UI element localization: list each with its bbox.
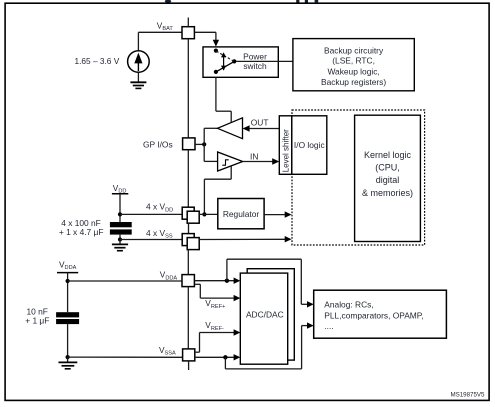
wire node vertical to buffers xyxy=(203,128,205,161)
node GPIO junction xyxy=(202,142,206,146)
dashed core domain box xyxy=(292,110,425,245)
analog peripherals box xyxy=(314,290,447,338)
svg-text:+ 1 x 4.7 μF: + 1 x 4.7 μF xyxy=(59,227,104,237)
symbol VDD xyxy=(112,183,128,222)
node VDD cap top xyxy=(118,212,122,216)
svg-text:switch: switch xyxy=(243,61,267,71)
svg-text:OUT: OUT xyxy=(251,118,269,128)
svg-text:(CPU,: (CPU, xyxy=(375,163,400,173)
svg-text:I/O logic: I/O logic xyxy=(294,140,325,150)
title descender fragment "y" xyxy=(315,0,319,2)
node VSSA cap bottom xyxy=(66,355,70,359)
wire VDDA loop to analog xyxy=(227,259,314,307)
svg-text:PLL,comparators, OPAMP,: PLL,comparators, OPAMP, xyxy=(324,310,423,320)
svg-text:& memories): & memories) xyxy=(362,188,413,198)
label VDDA pin xyxy=(160,270,178,282)
power switch box xyxy=(203,47,278,77)
rail GP to VDD pins xyxy=(187,150,189,208)
pin VBAT xyxy=(182,27,194,39)
svg-text:Wakeup logic,: Wakeup logic, xyxy=(327,67,379,77)
ground below voltage source xyxy=(130,72,146,88)
label 4 x 100 nF + 1 x 4.7 uF xyxy=(59,218,104,237)
arrow VSSA into ADC xyxy=(234,354,241,360)
wire IN buffer bottom to VDD node xyxy=(204,166,231,214)
svg-text:ADC/DAC: ADC/DAC xyxy=(246,309,284,319)
node VDDA junction xyxy=(225,279,229,283)
label VREF- xyxy=(205,320,224,332)
label VBAT xyxy=(157,20,174,32)
pin VDDA xyxy=(182,275,194,287)
label GP I/Os xyxy=(143,139,173,149)
rail VSS to VDDA pin xyxy=(187,250,189,275)
wire IN to level shifter xyxy=(243,158,280,164)
wire VSS to pin xyxy=(120,239,182,241)
wire VSSA loop to analog xyxy=(225,322,313,369)
pin 4xVSS (stacked) xyxy=(182,234,199,250)
svg-text:IN: IN xyxy=(250,151,258,161)
svg-text:(LSE, RTC,: (LSE, RTC, xyxy=(332,56,375,66)
voltage source V1 1.65-3.6V xyxy=(128,32,150,72)
rail VDDA to VSSA xyxy=(187,287,189,349)
wire VBAT source to pin xyxy=(138,31,182,33)
power switch contact top xyxy=(214,49,218,53)
wire OUT from level shifter xyxy=(243,125,280,131)
label backup circuitry xyxy=(321,45,386,86)
label VSSA pin xyxy=(159,345,176,357)
svg-text:Analog: RCs,: Analog: RCs, xyxy=(324,300,373,310)
wire GPIO pin to node xyxy=(195,143,204,145)
wire node to regulator xyxy=(199,213,218,215)
pin GPIO xyxy=(183,138,195,150)
label 4 x VDD xyxy=(146,202,173,214)
svg-text:Power: Power xyxy=(243,51,267,61)
wire VSS to core xyxy=(199,236,291,242)
pin 4xVDD (stacked) xyxy=(182,207,199,223)
ADC/DAC back box xyxy=(247,269,294,360)
label OUT xyxy=(251,118,269,128)
power switch contact bottom xyxy=(214,70,218,74)
svg-text:Regulator: Regulator xyxy=(223,209,260,219)
wire VREF+ xyxy=(194,284,240,301)
label 10 nF + 1 uF xyxy=(25,306,49,325)
label VREF+ xyxy=(205,298,225,310)
arrow VDDA into ADC xyxy=(234,278,241,284)
svg-text:....: .... xyxy=(324,321,333,331)
label MS19875V5 xyxy=(450,391,485,398)
svg-text:Level shifter: Level shifter xyxy=(281,129,290,172)
ground below C2 xyxy=(59,357,78,369)
power switch motion arrow xyxy=(221,52,226,71)
wire VDDA pin to ADC xyxy=(194,280,234,282)
backup circuitry box xyxy=(293,39,414,91)
regulator box xyxy=(218,199,264,229)
wire regulator to core xyxy=(264,211,292,217)
node VSSA junction xyxy=(223,355,227,359)
wire VBAT pin to power switch xyxy=(194,32,219,46)
wire VREF- xyxy=(195,329,241,352)
power switch dashed throw xyxy=(216,51,233,61)
pin VSSA xyxy=(183,349,195,361)
title descender fragment "p" xyxy=(296,0,299,3)
wire power switch to IO buffers xyxy=(216,77,231,123)
svg-text:1.65 – 3.6 V: 1.65 – 3.6 V xyxy=(75,56,120,66)
label IN xyxy=(250,151,258,161)
label 1.65 - 3.6 V xyxy=(75,56,120,66)
I/O logic box xyxy=(292,116,327,175)
node VDD junction xyxy=(202,212,206,216)
wire VSSA to pin xyxy=(68,356,183,358)
capacitor C1 4x100nF+4.7uF xyxy=(110,222,132,240)
svg-text:digital: digital xyxy=(376,175,400,185)
svg-text:MS19875V5: MS19875V5 xyxy=(450,391,485,398)
ground below C1 xyxy=(112,240,128,251)
svg-text:Backup registers): Backup registers) xyxy=(321,77,386,87)
node VDD cap bottom xyxy=(118,237,122,241)
wire node to OUT buffer apex xyxy=(204,127,217,129)
buffer IN schmitt xyxy=(218,152,243,171)
label 4 x VSS xyxy=(146,228,173,240)
main rail VBAT to GP xyxy=(187,39,189,138)
power switch pole xyxy=(232,59,236,63)
rail stub below VSSA xyxy=(188,361,190,370)
wire node to IN buffer xyxy=(204,160,217,162)
symbol VDDA xyxy=(57,259,78,312)
svg-text:GP I/Os: GP I/Os xyxy=(143,139,173,149)
node VDDA cap top xyxy=(66,279,70,283)
rail between VDD and VSS pins xyxy=(188,223,190,233)
wire power switch to backup xyxy=(236,60,293,62)
ADC/DAC front box xyxy=(240,273,287,364)
label Power switch xyxy=(243,51,267,71)
wire VSSA pin to ADC xyxy=(195,356,235,358)
svg-text:Kernel logic: Kernel logic xyxy=(364,150,412,160)
capacitor C2 10nF+1uF xyxy=(56,312,79,357)
wire VDD to pin xyxy=(120,213,182,215)
wire VDDA to pin xyxy=(68,280,182,282)
level shifter box xyxy=(279,116,292,175)
power switch solid throw xyxy=(216,61,234,72)
svg-text:Backup circuitry: Backup circuitry xyxy=(324,45,384,55)
svg-text:+ 1 μF: + 1 μF xyxy=(25,316,49,326)
title descender fragment "p" xyxy=(305,0,308,3)
rail stub above VBAT xyxy=(187,18,189,27)
kernel logic box xyxy=(355,115,421,241)
buffer OUT xyxy=(217,118,242,139)
title descender fragment "g" xyxy=(165,0,171,3)
